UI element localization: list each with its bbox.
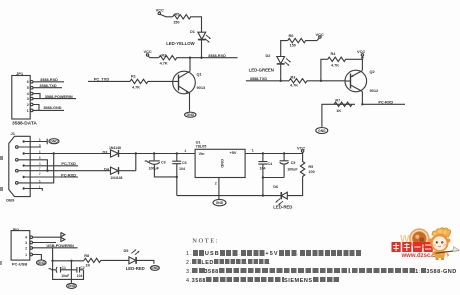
svg-text:Q1: Q1 (197, 72, 203, 77)
svg-text:C6: C6 (182, 161, 187, 165)
svg-text:1: 1 (252, 149, 254, 153)
svg-text:R1: R1 (131, 74, 136, 78)
svg-text:LED-YELLOW: LED-YELLOW (166, 41, 195, 46)
svg-text:J1: J1 (11, 131, 16, 136)
svg-text:3588-DATA: 3588-DATA (12, 121, 37, 127)
svg-text:150: 150 (173, 21, 179, 25)
svg-text:GND: GND (38, 261, 46, 265)
svg-text:4: 4 (39, 150, 41, 154)
svg-text:2: 2 (27, 103, 29, 107)
svg-text:2: 2 (39, 172, 41, 176)
svg-text:JP2: JP2 (12, 227, 20, 232)
svg-text:GND: GND (187, 113, 195, 117)
svg-text:R9: R9 (308, 165, 313, 169)
svg-text:NOTE:: NOTE: (192, 237, 219, 244)
svg-text:GND: GND (318, 129, 326, 133)
svg-text:D3: D3 (103, 150, 108, 154)
svg-text:GND: GND (151, 266, 159, 270)
svg-text:D1: D1 (190, 30, 195, 34)
svg-text:R4: R4 (331, 52, 337, 56)
svg-text:C4: C4 (268, 162, 273, 166)
svg-text:PC-RXD: PC-RXD (61, 172, 76, 177)
svg-text:1: 1 (39, 185, 41, 189)
svg-text:4: 4 (27, 92, 29, 96)
svg-text:5: 5 (27, 86, 29, 90)
svg-text:150: 150 (290, 44, 296, 48)
svg-text:9013: 9013 (197, 85, 206, 90)
svg-text:C3: C3 (161, 161, 166, 165)
svg-text:GND: GND (68, 284, 76, 288)
svg-text:4: 4 (25, 236, 27, 240)
svg-text:+5V: +5V (230, 150, 237, 155)
svg-text:LED-RED: LED-RED (273, 204, 292, 209)
svg-text:D5: D5 (124, 249, 129, 253)
svg-text:6: 6 (39, 179, 41, 183)
svg-text:VCC: VCC (144, 49, 152, 54)
svg-text:1: 1 (184, 149, 186, 153)
svg-text:JP1: JP1 (16, 71, 24, 76)
svg-text:3: 3 (25, 241, 27, 245)
svg-text:3588-POWERIN: 3588-POWERIN (45, 95, 73, 99)
svg-text:100: 100 (308, 170, 314, 174)
svg-text:GND: GND (50, 140, 58, 144)
svg-text:1: 1 (27, 109, 29, 113)
svg-text:PC-RXD: PC-RXD (378, 100, 393, 105)
svg-text:R3: R3 (291, 76, 296, 80)
svg-text:VCC: VCC (297, 145, 305, 150)
svg-text:3588-GND: 3588-GND (43, 106, 61, 110)
svg-text:PC-USB: PC-USB (12, 261, 27, 266)
svg-text:104: 104 (77, 274, 83, 278)
svg-text:PC-TXD: PC-TXD (61, 161, 76, 166)
svg-text:1: 1 (25, 253, 27, 257)
svg-text:104: 104 (179, 167, 185, 171)
svg-text:VCC: VCC (357, 49, 365, 54)
svg-text:PC_TXD: PC_TXD (94, 77, 110, 82)
svg-text:2: 2 (215, 182, 217, 186)
svg-text:2: 2 (25, 246, 27, 250)
svg-text:9: 9 (39, 143, 41, 147)
svg-text:3588-TXD: 3588-TXD (39, 84, 57, 88)
svg-text:D6: D6 (273, 185, 278, 189)
svg-text:10uF: 10uF (61, 274, 69, 278)
svg-text:R6: R6 (289, 34, 294, 38)
svg-text:3588-RXD: 3588-RXD (208, 54, 226, 58)
svg-text:C1: C1 (62, 266, 66, 270)
svg-text:3588-RXD: 3588-RXD (40, 78, 58, 82)
svg-text:GND: GND (216, 201, 224, 205)
svg-text:100uF: 100uF (149, 166, 160, 170)
svg-text:LED-RED: LED-RED (126, 266, 145, 271)
svg-text:C2: C2 (80, 266, 84, 270)
svg-text:3: 3 (27, 97, 29, 101)
svg-text:4.7K: 4.7K (132, 85, 140, 89)
svg-text:R5: R5 (175, 12, 180, 16)
svg-text:1N4148: 1N4148 (111, 176, 123, 180)
svg-text:100uF: 100uF (287, 168, 298, 172)
svg-text:6: 6 (27, 80, 29, 84)
svg-text:1N4148: 1N4148 (109, 146, 121, 150)
svg-text:Vin: Vin (199, 151, 206, 156)
svg-text:LED-GREEN: LED-GREEN (249, 68, 274, 73)
svg-text:R7: R7 (335, 99, 340, 103)
svg-text:R2: R2 (161, 54, 166, 58)
svg-text:DB9: DB9 (6, 198, 15, 203)
svg-text:5: 5 (39, 138, 41, 142)
svg-text:9012: 9012 (370, 88, 379, 93)
svg-text:D2: D2 (266, 54, 271, 58)
svg-text:GND: GND (220, 159, 225, 168)
svg-text:1K: 1K (85, 264, 90, 268)
svg-text:VCC: VCC (316, 32, 324, 37)
svg-text:Q2: Q2 (370, 69, 376, 74)
svg-text:VCC: VCC (156, 7, 164, 12)
svg-text:USB-POWERIN: USB-POWERIN (46, 244, 74, 248)
svg-text:4.7K: 4.7K (331, 64, 339, 68)
svg-text:3588-TXD: 3588-TXD (250, 77, 268, 81)
svg-text:7: 7 (39, 167, 41, 171)
svg-text:8: 8 (39, 156, 41, 160)
svg-text:4.7K: 4.7K (290, 84, 298, 88)
svg-text:C5: C5 (291, 161, 296, 165)
svg-text:R8: R8 (84, 254, 89, 258)
svg-text:78L05: 78L05 (196, 144, 207, 148)
svg-text:3: 3 (39, 162, 41, 166)
svg-text:1K: 1K (336, 109, 341, 113)
svg-text:104: 104 (260, 167, 266, 171)
svg-text:4.7K: 4.7K (160, 62, 168, 66)
